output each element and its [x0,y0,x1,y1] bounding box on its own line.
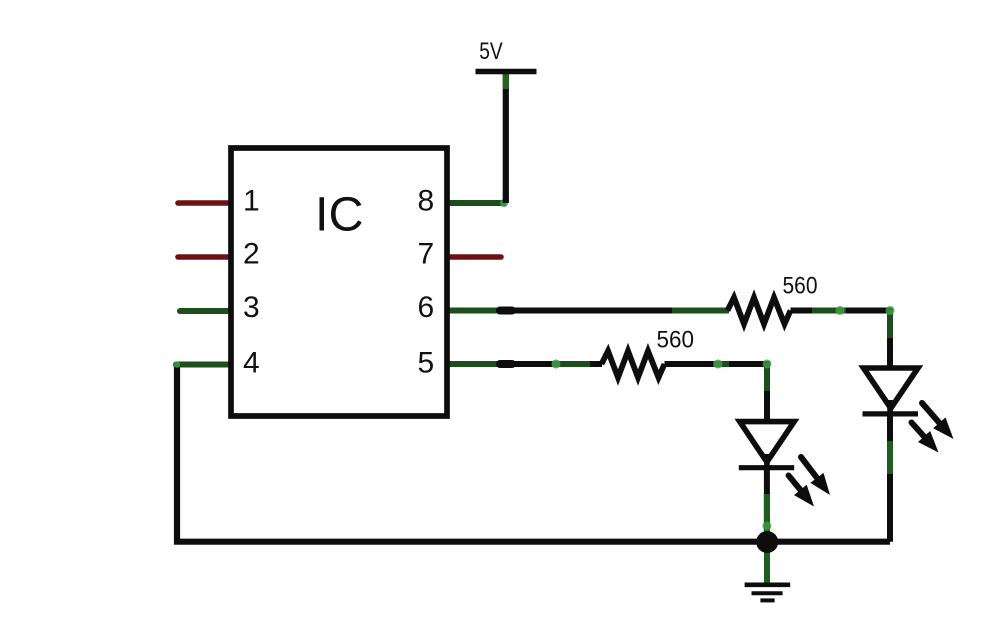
wire pin5 green segment [552,361,590,367]
svg-text:560: 560 [657,327,695,354]
LED D1 arrow 2 [789,476,814,507]
ground symbol bar2 [752,591,783,595]
wire LED2 cathode green segment [887,441,893,474]
wire LED1 drop green top [764,363,770,391]
wire pin3 stub green [180,308,230,314]
wire pin1 stub red [178,200,230,206]
wire pin8 green to 5V riser [448,200,506,206]
wire LED1 cathode green segment [764,494,770,536]
node junction dot [756,531,778,553]
node green glow above junction [762,522,771,531]
wire LED2 drop green top [887,310,893,338]
wire LED1 cathode down [764,468,770,535]
wire 5V riser green top segment [503,72,509,89]
node pin8 junction dot [500,199,508,207]
power 5V bar [476,69,537,75]
svg-text:2: 2 [243,238,260,271]
wire green segment after R2 [713,361,729,367]
wire LED2 drop: corner down [887,308,893,371]
wire pin6 green segment before R1 [672,308,729,314]
wire pin2 stub red [178,254,230,260]
node green dot pin5 [552,360,561,369]
LED D1 cathode bar [739,465,794,470]
wire pin4 stub green [176,362,230,368]
wire R2 to LED1 corner [665,361,768,367]
wire pin5 net: green stub [448,361,505,367]
wire pin6 net: green stub [448,308,505,314]
svg-text:560: 560 [783,273,818,300]
LED D1 anode stem through triangle [764,454,770,468]
svg-text:5V: 5V [479,38,503,65]
node corner green dot LED1 [763,360,772,369]
node green dot after R2 [714,360,723,369]
ground symbol bar3 [760,598,774,602]
svg-text:5: 5 [418,346,435,379]
LED D2 triangle [864,368,919,408]
svg-text:6: 6 [418,291,435,324]
node green dot after R1 [836,306,845,315]
IC U1 body [231,148,447,416]
wire 5V riser black [503,72,509,204]
wire R1 to LED2 corner [791,308,891,314]
wire LED2 cathode down [887,414,893,542]
LED D2 arrow 2 [912,423,939,453]
svg-text:IC: IC [315,187,364,241]
LED D2 cathode bar [863,411,919,416]
svg-text:3: 3 [243,291,260,324]
wire green segment after R1 [812,308,846,314]
resistor R1 560 [728,298,791,325]
svg-text:7: 7 [418,238,435,271]
wire pin4 to bottom rail [177,365,890,542]
wire pin5 black to R2 [590,361,602,367]
wire ground drop green [764,542,770,586]
node pin4 corner green cap [174,361,180,367]
wire LED1 drop: corner down [764,361,770,424]
node pin6 connector blob [500,307,512,315]
LED D2 arrow 1 [922,403,954,439]
resistor R2 560 [602,351,665,378]
svg-text:8: 8 [418,185,435,218]
wire pin5 black segment [512,361,552,367]
LED D2 anode stem through triangle [887,400,893,414]
svg-text:4: 4 [243,346,260,379]
ground symbol bar1 [745,582,791,587]
node pin5 connector blob [500,360,512,368]
LED D1 arrow 1 [801,457,830,495]
LED D1 triangle [740,422,795,462]
wire pin7 stub red [448,254,501,260]
wire pin6 black segment [512,308,672,314]
svg-text:1: 1 [243,185,260,218]
node corner green dot [886,306,895,315]
